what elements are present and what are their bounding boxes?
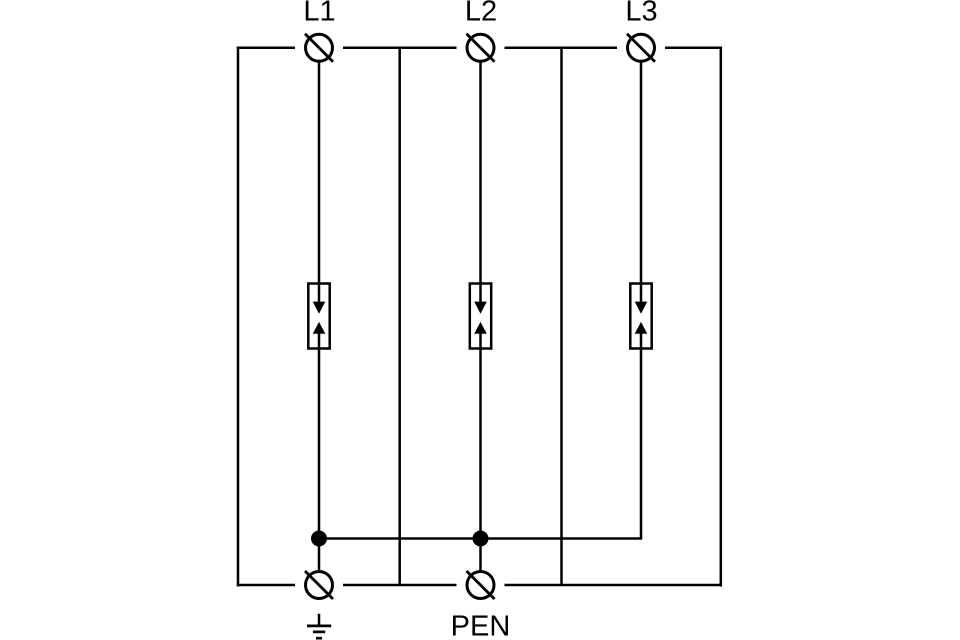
terminal PE bottom (circle with slash) (305, 571, 333, 599)
svg-text:L1: L1 (303, 0, 335, 27)
wire: L3 vertical, arrester to junction bus (640, 333, 643, 539)
module divider between L1 and L2 (398, 48, 401, 585)
wire: top bus segment L1 terminal to L2 terminal (343, 47, 457, 50)
junction dot at L2/PEN (473, 531, 489, 547)
wire: top bus segment L2 terminal to L3 terminal (505, 47, 618, 50)
terminal L3 top (circle with slash) (627, 34, 655, 62)
wire: L3 vertical, terminal to arrester (640, 61, 643, 303)
terminal PEN bottom (circle with slash) (467, 571, 495, 599)
svg-text:PEN: PEN (451, 611, 511, 640)
enclosure left edge (237, 47, 240, 587)
wire: top bus segment L3 terminal to right edge (665, 47, 722, 50)
wire: L2 vertical, arrester to bottom terminal (479, 333, 482, 573)
svg-text:L3: L3 (625, 0, 657, 27)
wire: L1 vertical, arrester to bottom terminal (318, 333, 321, 573)
module divider between L2 and L3 (560, 48, 563, 585)
enclosure right edge (720, 47, 723, 587)
ground symbol (307, 614, 331, 638)
wire: bottom bus segment PE terminal to PEN terminal (343, 584, 457, 587)
surge arrester F1 (L1 spark gap) (308, 284, 329, 349)
wire: common junction bus to PEN (319, 537, 642, 540)
terminal L1 top (circle with slash) (305, 34, 333, 62)
surge arrester F3 (L3 spark gap) (630, 284, 651, 349)
junction dot at L1/PEN (311, 531, 327, 547)
wire: top bus segment left edge to L1 terminal (237, 47, 295, 50)
surge arrester F2 (L2 spark gap) (470, 284, 491, 349)
terminal L2 top (circle with slash) (467, 34, 495, 62)
wire: L2 vertical, terminal to arrester (479, 61, 482, 303)
svg-text:L2: L2 (465, 0, 497, 27)
wire: bottom bus segment left edge to PE terminal (237, 584, 295, 587)
wire: L1 vertical, terminal to arrester (318, 61, 321, 303)
wire: bottom bus segment PEN terminal to right edge (505, 584, 723, 587)
